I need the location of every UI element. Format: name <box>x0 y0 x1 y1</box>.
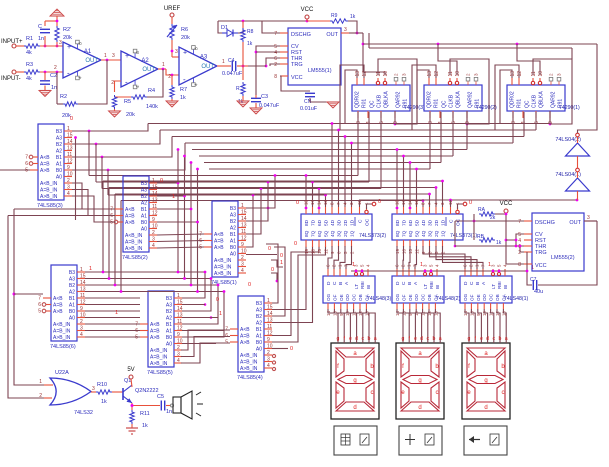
svg-text:R10: R10 <box>97 382 107 388</box>
svg-text:B1: B1 <box>230 232 236 238</box>
ground <box>109 109 121 117</box>
svg-text:A>B: A>B <box>53 309 63 315</box>
svg-text:QC: QC <box>370 100 376 108</box>
svg-text:QC: QC <box>525 100 531 108</box>
or-gate U22A 74LS32 <box>39 370 96 416</box>
wire <box>266 244 278 303</box>
wire <box>423 246 465 269</box>
node <box>102 271 123 293</box>
svg-text:1k: 1k <box>142 423 148 429</box>
wire <box>348 21 358 34</box>
wire <box>218 21 243 33</box>
svg-text:B0: B0 <box>141 220 147 226</box>
wire row J <box>102 187 381 207</box>
svg-text:A2: A2 <box>166 316 172 322</box>
net label <box>115 310 118 316</box>
svg-text:3: 3 <box>402 73 407 76</box>
svg-text:8: 8 <box>518 262 521 268</box>
wire <box>246 253 283 259</box>
wire feedback A2 <box>115 69 164 97</box>
resistor R4 <box>131 88 158 110</box>
svg-text:-: - <box>183 75 186 84</box>
wire <box>166 404 174 407</box>
svg-text:13: 13 <box>241 223 247 229</box>
wire display bus <box>397 309 442 343</box>
svg-text:3: 3 <box>267 357 270 363</box>
svg-text:12: 12 <box>517 71 523 77</box>
svg-text:0: 0 <box>294 241 297 247</box>
svg-text:A1: A1 <box>84 49 92 55</box>
wire inverter out <box>577 191 579 200</box>
wire <box>402 246 405 269</box>
svg-text:g: g <box>337 336 340 342</box>
svg-text:0: 0 <box>268 246 271 252</box>
svg-text:0: 0 <box>469 200 472 206</box>
wire row M <box>85 317 140 319</box>
net label <box>89 266 92 272</box>
svg-text:11: 11 <box>80 293 85 299</box>
svg-text:1: 1 <box>172 194 175 200</box>
resistor R10 <box>96 382 112 405</box>
svg-text:D: D <box>463 281 469 285</box>
wire <box>157 168 199 292</box>
svg-text:A1: A1 <box>69 303 75 309</box>
svg-text:12: 12 <box>362 71 368 77</box>
svg-text:10: 10 <box>267 344 273 350</box>
svg-text:B2: B2 <box>166 309 172 315</box>
wire clk loop <box>378 59 417 125</box>
svg-text:11: 11 <box>67 152 72 158</box>
ground <box>237 96 249 107</box>
svg-text:R7: R7 <box>180 87 187 93</box>
svg-text:VCC: VCC <box>301 7 314 13</box>
ground <box>50 9 64 21</box>
svg-text:74LS32: 74LS32 <box>74 410 93 416</box>
svg-text:74LS85(4): 74LS85(4) <box>237 375 263 381</box>
comparator 74LS85(4) <box>225 296 273 381</box>
svg-text:TRG: TRG <box>291 62 303 68</box>
svg-text:R5: R5 <box>124 99 131 105</box>
svg-text:13: 13 <box>80 287 86 293</box>
wire left rail 1 <box>13 209 116 385</box>
wire row J <box>96 181 369 207</box>
svg-text:11: 11 <box>531 71 537 76</box>
svg-text:OD: OD <box>414 293 419 301</box>
wire <box>271 260 283 267</box>
svg-text:OC: OC <box>365 218 371 226</box>
svg-text:QBLKA: QBLKA <box>456 91 462 108</box>
svg-text:QDR02: QDR02 <box>510 91 516 108</box>
op-amp A2 <box>111 49 158 89</box>
wire <box>337 129 340 207</box>
svg-text:7D: 7D <box>402 219 408 226</box>
svg-text:A2: A2 <box>141 201 147 207</box>
svg-text:5: 5 <box>38 309 41 315</box>
svg-text:a: a <box>374 336 377 342</box>
svg-text:B0: B0 <box>56 168 62 174</box>
wire <box>72 143 185 171</box>
svg-text:A=B_IN: A=B_IN <box>40 188 58 194</box>
svg-text:C3: C3 <box>261 94 268 100</box>
wire row y48 <box>369 33 572 59</box>
svg-text:0: 0 <box>271 267 274 273</box>
svg-text:BI: BI <box>366 285 371 289</box>
wire <box>131 403 161 410</box>
net label <box>469 200 472 206</box>
svg-text:c: c <box>362 336 365 342</box>
svg-text:QAR92: QAR92 <box>468 91 474 108</box>
svg-text:2: 2 <box>111 80 114 86</box>
svg-text:17: 17 <box>310 200 315 205</box>
wire row <box>148 112 550 124</box>
svg-text:4D: 4D <box>421 219 427 226</box>
comparator 74LS85(3) <box>25 124 73 209</box>
svg-text:A=B: A=B <box>150 329 160 335</box>
wire row L <box>121 199 424 291</box>
op-amp A3 <box>168 46 217 87</box>
net label <box>294 241 297 247</box>
display 7-segment <box>396 343 444 419</box>
svg-text:11: 11 <box>376 71 382 76</box>
svg-text:2: 2 <box>466 73 471 76</box>
svg-text:C: C <box>401 281 407 285</box>
wire <box>340 246 345 269</box>
svg-text:15: 15 <box>177 300 183 306</box>
svg-text:d: d <box>418 405 421 411</box>
svg-text:B1: B1 <box>141 207 147 213</box>
svg-text:e: e <box>349 336 352 342</box>
wire <box>14 293 43 295</box>
instrument box <box>464 426 507 455</box>
wire top rail <box>218 20 308 23</box>
wire trg <box>455 245 517 248</box>
svg-text:4: 4 <box>67 191 70 197</box>
svg-text:DSCHG: DSCHG <box>535 220 555 226</box>
wire <box>436 246 477 269</box>
svg-text:3Q: 3Q <box>428 230 434 237</box>
terminal INPUT+ <box>1 39 23 48</box>
wire clk loop <box>450 59 489 125</box>
wire <box>519 245 524 252</box>
wire <box>396 246 398 269</box>
comparator 74LS85(5) <box>135 291 183 376</box>
diode D1 <box>221 25 238 37</box>
wire row M <box>85 304 140 306</box>
svg-text:LT: LT <box>354 284 359 289</box>
svg-text:5D: 5D <box>415 219 421 226</box>
svg-text:B1: B1 <box>56 155 62 161</box>
transistor Q1 Q2N2222 <box>123 378 159 403</box>
svg-text:OD: OD <box>345 293 350 301</box>
wire display bus <box>465 309 508 343</box>
svg-text:7Q: 7Q <box>311 230 317 237</box>
svg-text:INPUT-: INPUT- <box>1 76 21 82</box>
wire row J <box>89 174 358 207</box>
svg-text:3D: 3D <box>428 219 434 226</box>
svg-text:R8: R8 <box>247 29 254 35</box>
svg-text:c: c <box>502 390 505 396</box>
ground <box>166 99 178 107</box>
svg-text:QDR02: QDR02 <box>355 91 361 108</box>
svg-text:A>B: A>B <box>125 220 135 226</box>
svg-text:13: 13 <box>152 198 158 204</box>
svg-text:LM555(2): LM555(2) <box>551 255 575 261</box>
svg-text:74290(2): 74290(2) <box>476 105 497 111</box>
svg-text:c: c <box>427 336 430 342</box>
svg-text:A=B: A=B <box>125 214 135 220</box>
svg-text:7: 7 <box>518 219 521 225</box>
wire <box>217 59 231 66</box>
svg-text:OB: OB <box>358 294 363 301</box>
resistor R2 <box>60 94 78 119</box>
svg-text:3: 3 <box>241 262 244 268</box>
svg-text:13: 13 <box>510 71 516 77</box>
wire <box>346 246 352 269</box>
svg-text:OG: OG <box>463 293 468 301</box>
svg-text:OC: OC <box>421 293 426 301</box>
svg-text:2: 2 <box>80 319 83 325</box>
svg-text:C: C <box>449 219 455 223</box>
svg-text:15: 15 <box>80 274 86 280</box>
wire <box>474 213 524 264</box>
wire row M <box>85 271 205 273</box>
svg-text:A>B_IN: A>B_IN <box>240 366 258 372</box>
wire <box>157 155 186 279</box>
resistor RA <box>478 207 496 221</box>
svg-text:OUT: OUT <box>326 32 338 38</box>
inverter 74LS04(2) <box>555 133 589 156</box>
wire LT bus <box>351 262 528 272</box>
ground <box>250 108 262 114</box>
svg-text:3: 3 <box>59 40 62 46</box>
wire <box>458 202 467 209</box>
svg-text:2: 2 <box>54 65 57 71</box>
latch 74LS373(1) <box>392 200 477 254</box>
svg-text:A0: A0 <box>141 227 147 233</box>
svg-text:3: 3 <box>344 27 347 33</box>
svg-text:A3: A3 <box>141 188 147 194</box>
svg-text:12: 12 <box>241 236 247 242</box>
wire <box>246 174 276 209</box>
wire <box>255 95 257 108</box>
ground <box>327 102 339 108</box>
svg-text:VCC: VCC <box>500 201 513 207</box>
svg-text:11: 11 <box>152 204 157 210</box>
wire row <box>199 112 453 156</box>
svg-text:d: d <box>484 405 487 411</box>
terminal UREF <box>164 6 181 17</box>
capacitor C3 <box>251 94 280 109</box>
svg-text:1: 1 <box>115 310 118 316</box>
instrument box <box>334 426 377 455</box>
svg-text:c: c <box>493 336 496 342</box>
svg-text:g: g <box>484 378 487 384</box>
svg-text:CLKB: CLKB <box>449 94 455 108</box>
svg-text:74LS373(1): 74LS373(1) <box>450 233 477 239</box>
svg-text:g: g <box>418 378 421 384</box>
terminal VCC <box>301 7 314 21</box>
svg-text:c: c <box>436 390 439 396</box>
svg-text:20k: 20k <box>63 35 72 41</box>
wire <box>272 246 306 310</box>
net label <box>172 194 175 200</box>
wire <box>182 277 212 311</box>
svg-text:15: 15 <box>67 133 73 139</box>
svg-text:R1: R1 <box>26 36 33 42</box>
svg-text:15: 15 <box>317 249 322 254</box>
svg-text:R11: R11 <box>140 411 150 417</box>
svg-text:3: 3 <box>587 215 590 221</box>
wire <box>72 137 172 159</box>
wire row <box>160 112 536 130</box>
svg-text:14: 14 <box>80 280 86 286</box>
wire <box>171 40 179 57</box>
svg-text:A1: A1 <box>256 334 262 340</box>
svg-text:4k: 4k <box>26 50 32 56</box>
svg-text:12: 12 <box>67 159 73 165</box>
svg-text:3Q: 3Q <box>337 230 343 237</box>
svg-text:0: 0 <box>160 178 163 184</box>
svg-text:B0: B0 <box>166 335 172 341</box>
svg-text:b: b <box>368 336 371 342</box>
svg-text:B3: B3 <box>141 181 147 187</box>
svg-text:1: 1 <box>89 266 92 272</box>
svg-text:74LS85(3): 74LS85(3) <box>37 203 63 209</box>
svg-text:C7: C7 <box>530 277 537 283</box>
svg-text:C: C <box>332 281 338 285</box>
wire clk loop <box>533 59 572 125</box>
svg-text:OB: OB <box>427 294 432 301</box>
svg-text:2: 2 <box>549 73 554 76</box>
svg-text:1: 1 <box>67 126 70 132</box>
svg-text:C5: C5 <box>157 394 164 400</box>
svg-text:74LS48(3): 74LS48(3) <box>367 296 391 302</box>
svg-text:A<B: A<B <box>53 296 63 302</box>
svg-text:QDR02: QDR02 <box>427 91 433 108</box>
svg-text:B: B <box>475 282 481 285</box>
wire row <box>192 112 467 150</box>
svg-text:RBI: RBI <box>497 281 502 289</box>
svg-text:14: 14 <box>67 139 73 145</box>
svg-text:D: D <box>395 281 401 285</box>
svg-text:BI: BI <box>503 285 508 289</box>
svg-text:1k: 1k <box>101 399 107 405</box>
wire <box>107 170 109 195</box>
svg-text:6D: 6D <box>408 219 414 226</box>
svg-text:10: 10 <box>80 313 86 319</box>
svg-text:12: 12 <box>152 211 158 217</box>
svg-text:12: 12 <box>434 71 440 77</box>
svg-text:2: 2 <box>67 178 70 184</box>
svg-text:11: 11 <box>177 319 182 325</box>
svg-text:A0: A0 <box>56 175 62 181</box>
wire <box>88 131 90 176</box>
wire <box>242 66 244 80</box>
wire 555-1 left <box>248 21 280 95</box>
wire row M <box>85 278 211 280</box>
svg-text:A>B: A>B <box>240 340 250 346</box>
wire feedback A1 <box>57 60 107 104</box>
wire reset <box>412 65 436 130</box>
svg-text:TRG: TRG <box>535 250 547 256</box>
wire <box>0 169 30 171</box>
svg-text:3: 3 <box>92 386 95 392</box>
svg-text:OF: OF <box>469 294 474 301</box>
svg-text:B2: B2 <box>256 314 262 320</box>
potentiometer R6 <box>167 24 190 41</box>
wire <box>334 246 339 269</box>
wire row <box>172 112 524 137</box>
instrument box <box>399 426 442 455</box>
svg-text:11: 11 <box>241 229 246 235</box>
svg-text:DSCHG: DSCHG <box>291 32 311 38</box>
svg-text:15: 15 <box>267 305 273 311</box>
comparator 74LS85(6) <box>38 265 86 350</box>
svg-text:VCC: VCC <box>291 75 303 81</box>
wire clka3 <box>384 72 386 75</box>
svg-text:A1: A1 <box>230 239 236 245</box>
svg-text:140k: 140k <box>146 104 158 110</box>
svg-text:QAR92: QAR92 <box>396 91 402 108</box>
svg-text:13: 13 <box>267 318 273 324</box>
svg-text:2: 2 <box>168 74 171 80</box>
wire <box>101 157 103 189</box>
svg-text:A<B_IN: A<B_IN <box>240 353 258 359</box>
svg-text:A=B_IN: A=B_IN <box>125 240 143 246</box>
svg-text:1: 1 <box>104 53 107 59</box>
svg-text:A<B_IN: A<B_IN <box>40 181 58 187</box>
svg-text:g: g <box>468 336 471 342</box>
svg-text:1: 1 <box>267 298 270 304</box>
wire <box>409 161 412 207</box>
wire reset <box>340 65 364 130</box>
svg-text:4D: 4D <box>330 219 336 226</box>
svg-text:1k: 1k <box>180 95 186 101</box>
svg-text:13: 13 <box>177 313 183 319</box>
svg-text:1: 1 <box>241 203 244 209</box>
wire 40u loop <box>527 221 597 285</box>
wire c3 drop <box>357 112 359 176</box>
wire <box>95 144 97 182</box>
svg-text:0: 0 <box>296 200 299 206</box>
svg-text:B: B <box>135 51 140 54</box>
svg-text:40u: 40u <box>534 289 543 295</box>
capacitor C5 <box>157 394 172 415</box>
svg-text:OD: OD <box>482 293 487 301</box>
svg-text:13: 13 <box>427 71 433 77</box>
svg-text:A>B: A>B <box>40 168 50 174</box>
svg-text:R3: R3 <box>26 62 33 68</box>
wire row <box>185 112 513 143</box>
svg-text:18: 18 <box>304 200 309 205</box>
svg-text:B1: B1 <box>69 296 75 302</box>
svg-text:8D: 8D <box>395 219 401 226</box>
svg-text:C: C <box>38 24 42 30</box>
wire row M <box>85 291 224 293</box>
svg-text:0: 0 <box>290 346 293 352</box>
node <box>272 354 275 370</box>
wire row M <box>85 310 140 312</box>
wire <box>182 271 206 298</box>
wire inverter feed <box>578 44 598 133</box>
svg-text:A<B: A<B <box>214 232 224 238</box>
svg-text:B: B <box>407 282 413 285</box>
svg-text:LM555(1): LM555(1) <box>308 68 332 74</box>
svg-text:d: d <box>353 405 356 411</box>
svg-text:8Q: 8Q <box>395 230 401 237</box>
net label <box>296 200 299 206</box>
svg-text:A>B_IN: A>B_IN <box>125 246 143 252</box>
